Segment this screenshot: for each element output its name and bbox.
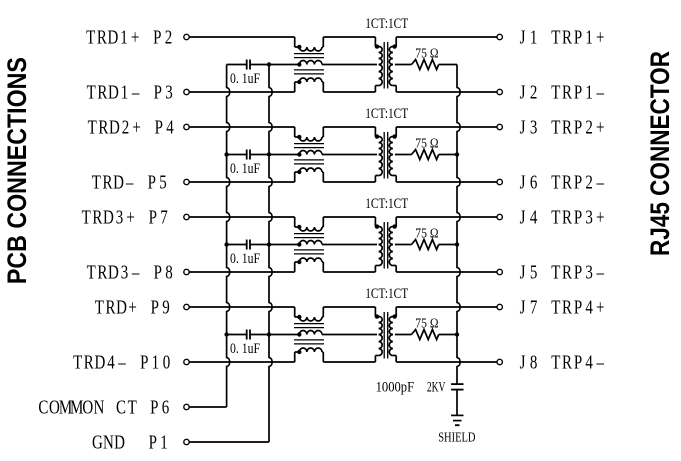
junction on common-ct rail at cap 2 bbox=[224, 152, 228, 156]
wire: cap junction to choke center tap (ch2) bbox=[269, 154, 299, 156]
svg-text:PCB CONNECTIONS: PCB CONNECTIONS bbox=[2, 57, 32, 284]
svg-text:J8 TRP4–: J8 TRP4– bbox=[520, 350, 605, 373]
svg-text:0. 1uF: 0. 1uF bbox=[230, 341, 260, 357]
wire: TRD2- row from pin to choke (ch2 bottom) bbox=[190, 181, 295, 183]
svg-text:1CT:1CT: 1CT:1CT bbox=[365, 286, 408, 302]
wire: secondary center tap to resistor (ch2) bbox=[395, 154, 412, 156]
wire: choke center tap to transformer primary center tap (ch4) bbox=[322, 334, 377, 336]
wire: choke center tap to transformer primary center tap (ch2) bbox=[322, 154, 377, 156]
node TRD3+ P7 (left pin label) bbox=[82, 205, 190, 228]
common-mode choke ch2 bbox=[294, 127, 324, 182]
node J7 TRP4+ (right pin label) bbox=[497, 295, 605, 318]
node TRD4– P10 (left pin label) bbox=[73, 350, 189, 373]
resistor 75 ohm (ch2) bbox=[412, 136, 439, 160]
wire: choke center tap to transformer primary center tap (ch1) bbox=[322, 64, 377, 66]
transformer T2 1CT:1CT bbox=[375, 127, 397, 182]
node J8 TRP4– (right pin label) bbox=[497, 350, 604, 373]
svg-text:0. 1uF: 0. 1uF bbox=[230, 251, 260, 267]
svg-text:J4 TRP3+: J4 TRP3+ bbox=[520, 205, 605, 228]
node J6 TRP2– (right pin label) bbox=[497, 170, 604, 193]
svg-text:0. 1uF: 0. 1uF bbox=[230, 161, 260, 177]
svg-text:1CT:1CT: 1CT:1CT bbox=[365, 16, 408, 32]
wire: transformer secondary bottom to J pin (ch1) bbox=[396, 91, 497, 93]
svg-text:TRD3+ P7: TRD3+ P7 bbox=[82, 205, 168, 228]
svg-text:J3 TRP2+: J3 TRP2+ bbox=[520, 115, 605, 138]
svg-text:J1 TRP1+: J1 TRP1+ bbox=[520, 25, 605, 48]
svg-text:1CT:1CT: 1CT:1CT bbox=[365, 106, 408, 122]
svg-text:TRD1– P3: TRD1– P3 bbox=[87, 80, 173, 103]
wire: resistor to shield rail (ch2) bbox=[439, 154, 457, 156]
svg-text:1CT:1CT: 1CT:1CT bbox=[365, 196, 408, 212]
wire: resistor to shield rail (ch1) bbox=[439, 64, 457, 66]
label 1CT:1CT (ch4) bbox=[365, 286, 408, 302]
common-mode choke ch4 bbox=[294, 307, 324, 362]
wire: TRD3- row from pin to choke (ch3 bottom) bbox=[190, 271, 295, 273]
wire: cap junction to choke center tap (ch3) bbox=[269, 244, 299, 246]
resistor 75 ohm (ch3) bbox=[412, 226, 439, 250]
wire: COMMON CT rail (vertical, hops over rows) bbox=[227, 65, 230, 408]
right title: RJ45 CONNECTOR bbox=[645, 51, 675, 256]
node TRD+ P9 (left pin label) bbox=[95, 295, 189, 318]
svg-text:J7 TRP4+: J7 TRP4+ bbox=[520, 295, 605, 318]
svg-text:TRD– P5: TRD– P5 bbox=[92, 170, 167, 193]
label 1CT:1CT (ch2) bbox=[365, 106, 408, 122]
junction on gnd rail at cap 2 bbox=[267, 152, 271, 156]
capacitor 0.1uF (ch4) bbox=[227, 330, 269, 358]
capacitor 0.1uF (ch2) bbox=[227, 150, 269, 178]
junction on gnd rail at cap 1 bbox=[267, 62, 271, 66]
wire: GND pin to rail bbox=[190, 441, 270, 443]
wire: choke to transformer primary top (ch3) bbox=[323, 216, 375, 218]
wire: choke to transformer primary top (ch1) bbox=[323, 36, 375, 38]
svg-text:TRD1+ P2: TRD1+ P2 bbox=[86, 25, 172, 48]
svg-text:75 Ω: 75 Ω bbox=[415, 226, 438, 241]
capacitor 0.1uF (ch3) bbox=[227, 240, 269, 268]
svg-text:J6 TRP2–: J6 TRP2– bbox=[520, 170, 605, 193]
node J2 TRP1– (right pin label) bbox=[497, 80, 604, 103]
wire: choke to transformer primary top (ch2) bbox=[323, 126, 375, 128]
wire: transformer secondary top to J pin (ch1) bbox=[396, 36, 497, 38]
wire: TRD1+ row from pin to choke (ch1 top) bbox=[190, 36, 295, 38]
wire: transformer secondary top to J pin (ch3) bbox=[396, 216, 497, 218]
node TRD1+ P2 (left pin label) bbox=[86, 25, 189, 48]
svg-text:75 Ω: 75 Ω bbox=[415, 46, 438, 61]
wire: cap junction to choke center tap (ch1) bbox=[269, 64, 299, 66]
svg-text:RJ45 CONNECTOR: RJ45 CONNECTOR bbox=[645, 51, 675, 256]
svg-text:1000pF: 1000pF bbox=[376, 380, 415, 396]
svg-text:COMMON CT P6: COMMON CT P6 bbox=[38, 395, 169, 418]
wire: choke to transformer primary bottom (ch2) bbox=[323, 181, 375, 183]
wire: cap junction to choke center tap (ch4) bbox=[269, 334, 299, 336]
wire: transformer secondary top to J pin (ch2) bbox=[396, 126, 497, 128]
transformer T3 1CT:1CT bbox=[375, 217, 397, 272]
junction on common-ct rail at cap 3 bbox=[224, 242, 228, 246]
wire: secondary center tap to resistor (ch1) bbox=[395, 64, 412, 66]
svg-text:2KV: 2KV bbox=[427, 380, 446, 396]
junction on common-ct rail at cap 4 bbox=[224, 332, 228, 336]
wire: transformer secondary bottom to J pin (ch2) bbox=[396, 181, 497, 183]
ground SHIELD bbox=[438, 415, 475, 445]
common-mode choke ch1 bbox=[294, 37, 324, 92]
wire: TRD1- row from pin to choke (ch1 bottom) bbox=[190, 91, 295, 93]
svg-text:TRD+ P9: TRD+ P9 bbox=[95, 295, 170, 318]
wire: choke to transformer primary bottom (ch1) bbox=[323, 91, 375, 93]
node TRD2+ P4 (left pin label) bbox=[88, 115, 190, 138]
svg-text:J5 TRP3–: J5 TRP3– bbox=[520, 260, 605, 283]
wire: choke to transformer primary bottom (ch4) bbox=[323, 361, 375, 363]
wire: choke to transformer primary bottom (ch3) bbox=[323, 271, 375, 273]
svg-text:SHIELD: SHIELD bbox=[438, 431, 475, 446]
junction on gnd rail at cap 4 bbox=[267, 332, 271, 336]
label 1CT:1CT (ch1) bbox=[365, 16, 408, 32]
resistor 75 ohm (ch1) bbox=[412, 46, 439, 70]
wire: TRD4+ row from pin to choke (ch4 top) bbox=[190, 306, 295, 308]
wire: shield rail (vertical, hops over rows) bbox=[457, 65, 460, 385]
svg-text:TRD3– P8: TRD3– P8 bbox=[87, 260, 173, 283]
junction on shield rail (ch4) bbox=[455, 332, 459, 336]
capacitor 1000pF 2KV bbox=[376, 380, 464, 396]
svg-text:0. 1uF: 0. 1uF bbox=[230, 71, 260, 87]
svg-text:75 Ω: 75 Ω bbox=[415, 136, 438, 151]
svg-text:TRD2+ P4: TRD2+ P4 bbox=[88, 115, 174, 138]
wire: choke center tap to transformer primary center tap (ch3) bbox=[322, 244, 377, 246]
svg-text:J2 TRP1–: J2 TRP1– bbox=[520, 80, 605, 103]
wire: secondary center tap to resistor (ch3) bbox=[395, 244, 412, 246]
wire: choke to transformer primary top (ch4) bbox=[323, 306, 375, 308]
node J1 TRP1+ (right pin label) bbox=[497, 25, 605, 48]
transformer T1 1CT:1CT bbox=[375, 37, 397, 92]
svg-text:75 Ω: 75 Ω bbox=[415, 316, 438, 331]
transformer T4 1CT:1CT bbox=[375, 307, 397, 362]
node TRD3– P8 (left pin label) bbox=[87, 260, 190, 283]
wire: transformer secondary bottom to J pin (ch4) bbox=[396, 361, 497, 363]
node COMMON CT P6 (left pin label) bbox=[38, 395, 189, 418]
node GND P1 (left pin label) bbox=[92, 430, 189, 453]
wire: TRD3+ row from pin to choke (ch3 top) bbox=[190, 216, 295, 218]
junction on shield rail (ch3) bbox=[455, 242, 459, 246]
capacitor 0.1uF (ch1) bbox=[227, 60, 269, 88]
svg-text:GND P1: GND P1 bbox=[92, 430, 168, 453]
wire: TRD2+ row from pin to choke (ch2 top) bbox=[190, 126, 295, 128]
junction on gnd rail at cap 3 bbox=[267, 242, 271, 246]
node J3 TRP2+ (right pin label) bbox=[497, 115, 605, 138]
wire: transformer secondary top to J pin (ch4) bbox=[396, 306, 497, 308]
wire: GND rail (vertical, hops over rows) bbox=[269, 65, 272, 443]
wire: transformer secondary bottom to J pin (ch3) bbox=[396, 271, 497, 273]
wire: secondary center tap to resistor (ch4) bbox=[395, 334, 412, 336]
node J4 TRP3+ (right pin label) bbox=[497, 205, 605, 228]
node TRD– P5 (left pin label) bbox=[92, 170, 189, 193]
node J5 TRP3– (right pin label) bbox=[497, 260, 604, 283]
wire: TRD4- row from pin to choke (ch4 bottom) bbox=[190, 361, 295, 363]
common-mode choke ch3 bbox=[294, 217, 324, 272]
resistor 75 ohm (ch4) bbox=[412, 316, 439, 340]
wire: cap to shield ground bbox=[456, 390, 458, 416]
wire: resistor to shield rail (ch3) bbox=[439, 244, 457, 246]
wire: COMMON CT pin to rail bbox=[190, 406, 227, 408]
wire: resistor to shield rail (ch4) bbox=[439, 334, 457, 336]
svg-text:TRD4– P10: TRD4– P10 bbox=[73, 350, 170, 373]
junction on shield rail (ch2) bbox=[455, 152, 459, 156]
node TRD1– P3 (left pin label) bbox=[87, 80, 190, 103]
left title: PCB CONNECTIONS bbox=[2, 57, 32, 284]
label 1CT:1CT (ch3) bbox=[365, 196, 408, 212]
